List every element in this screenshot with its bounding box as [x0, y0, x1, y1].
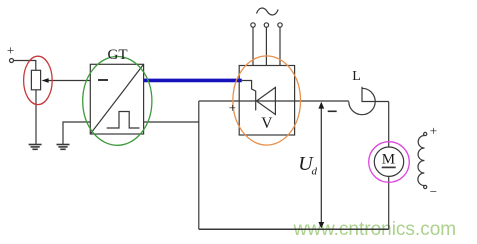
svg-text:M: M	[382, 152, 395, 168]
svg-text:+: +	[430, 123, 437, 138]
svg-text:+: +	[229, 100, 236, 115]
svg-text:V: V	[261, 115, 273, 132]
svg-text:L: L	[352, 69, 361, 84]
svg-text:−: −	[430, 184, 437, 199]
svg-text:+: +	[7, 43, 14, 58]
svg-text:GT: GT	[108, 47, 128, 63]
svg-text:d: d	[312, 166, 318, 178]
